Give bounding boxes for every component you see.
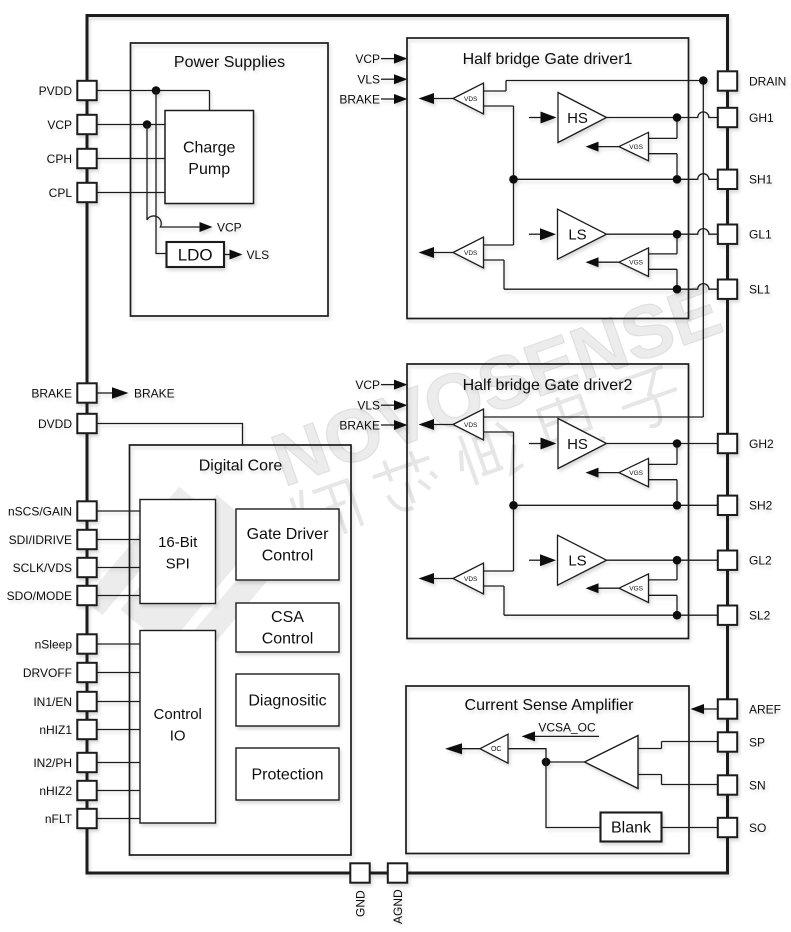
svg-text:DVDD: DVDD	[38, 417, 72, 431]
svg-text:nSCS/GAIN: nSCS/GAIN	[8, 504, 72, 518]
svg-text:nHIZ1: nHIZ1	[39, 723, 72, 737]
svg-text:VGS: VGS	[629, 470, 643, 477]
svg-text:VCP: VCP	[355, 378, 380, 392]
svg-text:VCSA_OC: VCSA_OC	[538, 721, 596, 735]
svg-text:BRAKE: BRAKE	[31, 386, 72, 400]
svg-text:LS: LS	[568, 227, 586, 244]
svg-text:VDS: VDS	[464, 250, 478, 257]
svg-text:VCP: VCP	[217, 220, 242, 234]
svg-text:Pump: Pump	[188, 161, 230, 178]
svg-text:BRAKE: BRAKE	[339, 92, 380, 106]
svg-text:HS: HS	[567, 436, 588, 453]
svg-text:GH1: GH1	[749, 111, 774, 125]
svg-text:Power Supplies: Power Supplies	[174, 54, 285, 71]
svg-text:GL1: GL1	[749, 228, 772, 242]
svg-text:VGS: VGS	[629, 586, 643, 593]
svg-text:Half bridge Gate driver2: Half bridge Gate driver2	[463, 377, 633, 394]
svg-text:CPH: CPH	[47, 152, 72, 166]
svg-text:IO: IO	[170, 728, 186, 745]
svg-text:Protection: Protection	[251, 766, 323, 783]
svg-text:DRVOFF: DRVOFF	[23, 666, 72, 680]
svg-text:Control: Control	[262, 631, 314, 648]
svg-text:nSleep: nSleep	[35, 637, 73, 651]
svg-text:Control: Control	[154, 706, 202, 723]
svg-text:SDI/IDRIVE: SDI/IDRIVE	[9, 533, 72, 547]
svg-text:SH1: SH1	[749, 173, 773, 187]
svg-text:SN: SN	[749, 778, 766, 792]
svg-text:BRAKE: BRAKE	[134, 386, 175, 400]
svg-text:Diagnositic: Diagnositic	[248, 692, 326, 709]
svg-text:Current Sense Amplifier: Current Sense Amplifier	[465, 697, 635, 714]
svg-text:IN2/PH: IN2/PH	[33, 756, 72, 770]
svg-text:nFLT: nFLT	[45, 812, 73, 826]
svg-text:16-Bit: 16-Bit	[158, 534, 198, 551]
svg-text:VLS: VLS	[247, 248, 270, 262]
svg-text:VCP: VCP	[47, 118, 72, 132]
svg-text:GH2: GH2	[749, 437, 774, 451]
svg-text:Control: Control	[262, 548, 314, 565]
svg-text:Half bridge Gate driver1: Half bridge Gate driver1	[463, 51, 633, 68]
svg-text:VGS: VGS	[629, 144, 643, 151]
svg-text:SH2: SH2	[749, 499, 773, 513]
svg-text:AGND: AGND	[391, 889, 405, 924]
svg-text:VCP: VCP	[355, 52, 380, 66]
svg-text:GND: GND	[353, 890, 367, 917]
svg-text:SP: SP	[749, 735, 765, 749]
svg-text:SL2: SL2	[749, 609, 771, 623]
svg-text:VDS: VDS	[464, 422, 478, 429]
svg-text:Blank: Blank	[611, 819, 652, 836]
svg-text:VDS: VDS	[464, 576, 478, 583]
svg-text:SPI: SPI	[166, 556, 190, 573]
svg-text:IN1/EN: IN1/EN	[33, 695, 72, 709]
svg-text:Charge: Charge	[183, 140, 236, 157]
svg-text:nHIZ2: nHIZ2	[39, 784, 72, 798]
svg-text:Gate Driver: Gate Driver	[247, 526, 329, 543]
svg-text:AREF: AREF	[749, 702, 781, 716]
svg-text:SCLK/VDS: SCLK/VDS	[13, 561, 72, 575]
svg-text:VDS: VDS	[464, 96, 478, 103]
svg-text:SDO/MODE: SDO/MODE	[7, 589, 72, 603]
svg-text:VLS: VLS	[357, 73, 380, 87]
svg-text:BRAKE: BRAKE	[339, 418, 380, 432]
svg-text:HS: HS	[567, 110, 588, 127]
svg-text:LDO: LDO	[178, 246, 213, 265]
svg-text:Digital Core: Digital Core	[199, 458, 283, 475]
svg-text:VLS: VLS	[357, 399, 380, 413]
svg-text:DRAIN: DRAIN	[749, 74, 786, 88]
svg-text:CSA: CSA	[271, 609, 304, 626]
svg-text:SO: SO	[749, 821, 766, 835]
svg-text:VGS: VGS	[629, 260, 643, 267]
svg-text:LS: LS	[568, 553, 586, 570]
svg-text:OC: OC	[491, 746, 502, 753]
svg-text:PVDD: PVDD	[39, 84, 73, 98]
svg-text:SL1: SL1	[749, 283, 771, 297]
svg-text:GL2: GL2	[749, 554, 772, 568]
svg-text:CPL: CPL	[49, 186, 73, 200]
